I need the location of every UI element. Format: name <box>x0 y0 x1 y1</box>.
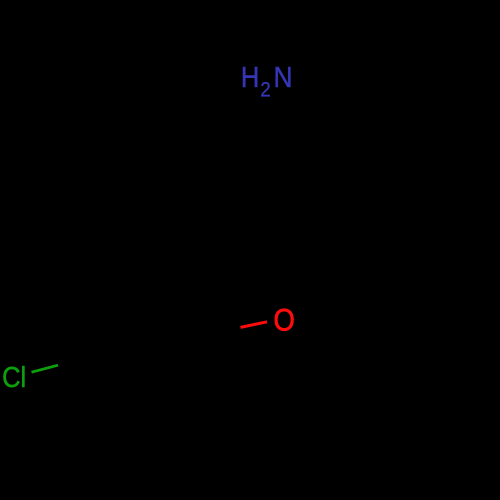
svg-text:O: O <box>274 303 295 338</box>
bond O-C1 oxygen half (red) <box>241 322 268 328</box>
benzene ring C2-C3 <box>134 382 183 391</box>
benzene ring C3-C4 <box>102 354 134 391</box>
benzene ring C1-C2 <box>183 335 199 382</box>
bond C14-O (carbon half, black) <box>296 291 308 305</box>
bond C7-C8 ring <box>308 118 358 121</box>
bond C13-C14 <box>283 248 308 291</box>
bond C11-C12 ring <box>283 162 308 205</box>
bond C12-C7 ring <box>283 119 308 162</box>
bond C4-Cl carbon half (black, invisible) <box>58 354 102 365</box>
bond C11-C13 <box>283 205 308 248</box>
bond C10-C11 ring <box>308 204 358 207</box>
bond C8-C9 ring <box>358 119 383 162</box>
bond Cl-C4 chlorine half (green) <box>32 365 59 372</box>
benzene ring C6-C1 <box>166 298 199 335</box>
bond N-C7 (black on black) <box>283 90 308 119</box>
svg-text:N: N <box>274 61 293 93</box>
bond C9-C10 ring <box>358 162 383 205</box>
benzene ring C4-C5 <box>102 307 118 354</box>
svg-text:2: 2 <box>260 78 271 101</box>
benzene ring C5-C6 <box>118 298 166 307</box>
svg-text:Cl: Cl <box>2 360 26 393</box>
svg-text:H: H <box>241 60 259 93</box>
bond C1-O carbon half (black, invisible) <box>199 327 241 335</box>
